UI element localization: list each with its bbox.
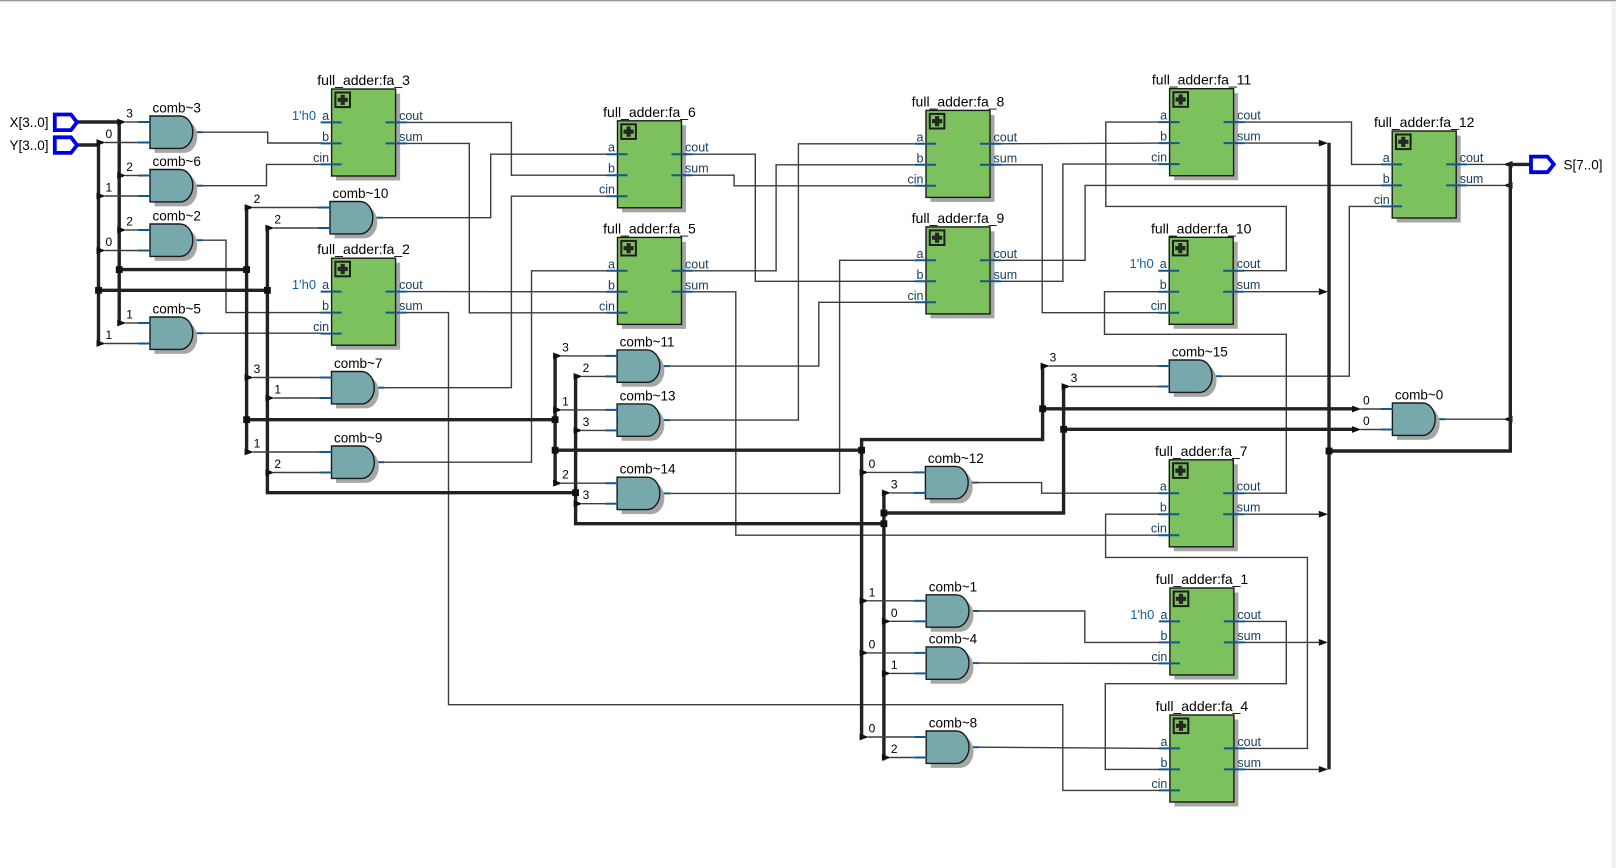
svg-text:cout: cout <box>399 109 423 123</box>
node X[2] branch to comb~14 <box>553 468 605 487</box>
svg-text:cout: cout <box>685 141 709 155</box>
svg-text:sum: sum <box>1237 501 1261 515</box>
svg-text:sum: sum <box>1237 130 1261 144</box>
AND gate comb~6 <box>138 154 201 206</box>
wire fa_1.cout to fa_4.b <box>1105 621 1286 769</box>
wire comb~4 output to fa_1.cin <box>968 662 1160 664</box>
wire fa_3.cout to fa_6.b <box>407 122 608 175</box>
svg-text:2: 2 <box>274 213 281 227</box>
node Y[2] branch to comb~10 <box>265 213 318 232</box>
node X[1] branch to comb~9 <box>245 437 320 456</box>
svg-text:2: 2 <box>274 457 281 471</box>
svg-text:1: 1 <box>869 585 876 599</box>
wire fa_12.sum to S trunk <box>1467 182 1512 189</box>
svg-text:comb~5: comb~5 <box>153 302 201 317</box>
node Y[0] branch to comb~2 <box>97 235 139 254</box>
svg-text:cin: cin <box>908 289 924 303</box>
wire fa_7.sum to S bus <box>1244 511 1328 518</box>
node X[0] branch to comb~4 <box>860 637 915 656</box>
wire fa_4.sum to S bus <box>1245 766 1328 773</box>
wire comb~9 output to fa_5.a <box>373 271 607 462</box>
wire fa_6.sum to fa_8.cin <box>693 175 917 186</box>
junction Y bus at (1064,429) <box>1060 426 1067 433</box>
wire fa_3.sum to fa_5.cin <box>407 143 608 312</box>
svg-text:sum: sum <box>994 268 1018 282</box>
AND gate comb~12 <box>913 451 983 503</box>
svg-text:sum: sum <box>399 299 423 313</box>
node X[3] branch to comb~11 <box>553 340 605 359</box>
AND gate comb~2 <box>138 209 201 261</box>
svg-text:comb~6: comb~6 <box>153 154 201 169</box>
node X[2] branch to comb~2 <box>117 215 138 234</box>
node Y[3] branch to comb~14 <box>574 488 606 507</box>
node X[3] branch to comb~15 <box>1041 351 1158 370</box>
junction X bus at (555,420) <box>552 416 559 423</box>
svg-text:b: b <box>1160 501 1167 515</box>
node X[2] branch to comb~10 <box>245 192 318 211</box>
svg-text:2: 2 <box>562 468 569 482</box>
svg-text:a: a <box>608 141 615 155</box>
wire comb~10 output to fa_6.a <box>372 154 608 218</box>
junction Y bus at (267,290) <box>264 287 271 294</box>
wire fa_9.sum to fa_11.cin <box>1001 164 1160 281</box>
svg-text:sum: sum <box>1237 756 1261 770</box>
svg-text:cin: cin <box>313 320 329 334</box>
svg-text:1: 1 <box>126 308 133 322</box>
node Y[1] branch to comb~7 <box>265 383 319 402</box>
full adder U fa_12 <box>1374 114 1484 223</box>
svg-text:b: b <box>608 278 615 292</box>
svg-text:a: a <box>1160 735 1167 749</box>
svg-text:full_adder:fa_7: full_adder:fa_7 <box>1155 443 1248 459</box>
svg-text:cin: cin <box>599 183 615 197</box>
svg-text:b: b <box>1160 756 1167 770</box>
svg-text:b: b <box>1160 629 1167 643</box>
wire fa_8.sum to fa_10.cin <box>1001 165 1159 313</box>
svg-text:sum: sum <box>399 130 423 144</box>
svg-text:full_adder:fa_10: full_adder:fa_10 <box>1151 220 1252 236</box>
AND gate comb~1 <box>914 579 977 631</box>
svg-text:cout: cout <box>685 257 709 271</box>
wire comb~14 output to fa_9.a <box>659 260 916 493</box>
wire fa_5.sum to fa_7.cin <box>693 292 1160 535</box>
wire X input bus trunk <box>76 122 1354 737</box>
wire comb~15 output to fa_12.cin <box>1211 206 1382 376</box>
svg-text:sum: sum <box>1237 629 1261 643</box>
svg-text:comb~10: comb~10 <box>333 186 389 201</box>
junction X bus at (247,420) <box>243 416 250 423</box>
node X[0] branch to comb~8 <box>860 722 915 741</box>
svg-text:0: 0 <box>869 457 876 471</box>
svg-text:comb~15: comb~15 <box>1172 345 1228 360</box>
wire comb~0 output to S trunk <box>1434 416 1512 423</box>
svg-text:cout: cout <box>1237 480 1261 494</box>
input pin Y[3..0] <box>10 137 78 153</box>
full adder U fa_5 <box>599 220 709 329</box>
svg-text:b: b <box>917 268 924 282</box>
AND gate comb~11 <box>605 334 674 386</box>
wire comb~11 output to fa_9.cin <box>659 302 916 366</box>
svg-text:comb~9: comb~9 <box>334 431 382 446</box>
svg-text:cout: cout <box>1237 735 1261 749</box>
svg-text:1'h0: 1'h0 <box>292 108 316 123</box>
svg-text:sum: sum <box>994 151 1018 165</box>
svg-text:full_adder:fa_4: full_adder:fa_4 <box>1156 698 1249 714</box>
svg-text:cout: cout <box>994 247 1018 261</box>
node X[0] branch to comb~12 <box>860 457 914 476</box>
svg-text:0: 0 <box>106 235 113 249</box>
junction Y bus at (576,493) <box>572 489 579 496</box>
svg-text:cin: cin <box>1151 777 1167 791</box>
svg-text:cin: cin <box>1151 650 1167 664</box>
svg-text:3: 3 <box>562 340 569 354</box>
svg-text:cout: cout <box>1460 151 1484 165</box>
wire fa_11.cout to fa_12.a <box>1245 122 1383 164</box>
svg-text:2: 2 <box>126 215 133 229</box>
wire fa_10.sum to S bus <box>1244 288 1328 295</box>
node Y[1] branch to comb~5 <box>97 328 139 347</box>
full adder U fa_6 <box>599 104 709 213</box>
svg-text:b: b <box>1160 130 1167 144</box>
svg-text:cout: cout <box>1237 257 1261 271</box>
AND gate comb~7 <box>320 356 383 408</box>
full adder U fa_9 <box>908 210 1018 319</box>
svg-text:comb~4: comb~4 <box>929 631 978 646</box>
svg-text:comb~1: comb~1 <box>929 579 977 594</box>
AND gate comb~15 <box>1157 345 1227 397</box>
svg-text:2: 2 <box>126 160 133 174</box>
svg-text:1'h0: 1'h0 <box>1130 256 1154 271</box>
svg-text:cin: cin <box>1151 522 1167 536</box>
node Y[0] branch to comb~1 <box>882 606 914 625</box>
node Y[1] branch to comb~4 <box>882 658 914 677</box>
svg-text:comb~11: comb~11 <box>620 334 675 349</box>
svg-text:cout: cout <box>1237 608 1261 622</box>
full adder U fa_7 <box>1151 443 1261 552</box>
svg-text:sum: sum <box>1460 172 1484 186</box>
AND gate comb~10 <box>318 186 388 238</box>
node X[3] branch to comb~3 <box>117 107 138 126</box>
wire fa_5.cout to fa_8.b <box>693 165 917 271</box>
wire fa_9.cout to fa_12.b <box>1001 185 1382 260</box>
svg-text:comb~8: comb~8 <box>929 716 977 731</box>
svg-text:b: b <box>1383 172 1390 186</box>
junction S bus at (1329,451) <box>1326 448 1333 455</box>
svg-text:0: 0 <box>1363 394 1370 408</box>
svg-text:a: a <box>1383 151 1390 165</box>
full adder U fa_2 <box>292 241 423 350</box>
node Y[0] branch to comb~0 <box>1352 414 1380 433</box>
node X[1] branch to comb~13 <box>553 394 605 413</box>
svg-text:comb~12: comb~12 <box>928 451 984 466</box>
AND gate comb~13 <box>605 388 675 440</box>
svg-text:a: a <box>917 130 924 144</box>
svg-text:0: 0 <box>891 606 898 620</box>
svg-text:0: 0 <box>1363 414 1370 428</box>
svg-text:comb~13: comb~13 <box>620 388 676 403</box>
svg-text:full_adder:fa_12: full_adder:fa_12 <box>1374 114 1475 130</box>
wire comb~2 output to fa_2.b <box>192 240 322 312</box>
svg-text:sum: sum <box>685 278 709 292</box>
svg-text:comb~14: comb~14 <box>620 462 676 477</box>
full adder U fa_1 <box>1130 571 1261 680</box>
wire comb~1 output to fa_1.b <box>968 611 1160 642</box>
wire S output bus trunk <box>1329 143 1532 770</box>
svg-text:3: 3 <box>1071 371 1078 385</box>
node X[1] branch to comb~1 <box>860 585 915 604</box>
svg-text:full_adder:fa_3: full_adder:fa_3 <box>317 72 410 88</box>
wire Y input bus trunk <box>76 145 1354 760</box>
svg-text:3: 3 <box>254 362 261 376</box>
svg-text:a: a <box>322 109 329 123</box>
svg-text:cout: cout <box>994 130 1018 144</box>
wire fa_4.cout to fa_7.b <box>1106 514 1308 748</box>
wire comb~5 output to fa_2.cin <box>192 332 322 334</box>
full adder U fa_10 <box>1130 220 1261 328</box>
wire fa_11.sum to S bus <box>1245 140 1328 147</box>
svg-text:full_adder:fa_5: full_adder:fa_5 <box>603 220 696 236</box>
junction X bus at (555,450) <box>552 447 559 454</box>
node Y[0] branch to comb~3 <box>97 127 139 146</box>
AND gate comb~5 <box>138 302 201 354</box>
AND gate comb~4 <box>914 631 977 683</box>
svg-text:comb~0: comb~0 <box>1395 388 1443 403</box>
svg-text:a: a <box>1160 480 1167 494</box>
AND gate comb~3 <box>138 101 201 153</box>
AND gate comb~14 <box>605 462 676 514</box>
svg-text:full_adder:fa_11: full_adder:fa_11 <box>1152 72 1252 88</box>
AND gate comb~8 <box>914 716 977 768</box>
node X[0] branch to comb~0 <box>1352 394 1380 413</box>
output pin S[7..0] <box>1531 157 1603 173</box>
junction Y bus at (884,524) <box>881 520 888 527</box>
full adder U fa_3 <box>292 72 423 181</box>
svg-text:1: 1 <box>274 383 281 397</box>
svg-text:3: 3 <box>583 488 590 502</box>
svg-text:comb~3: comb~3 <box>153 101 201 116</box>
wire fa_1.sum to S bus <box>1245 639 1328 646</box>
svg-text:cin: cin <box>313 151 329 165</box>
svg-text:1: 1 <box>562 394 569 408</box>
junction X bus at (247,270) <box>243 266 250 273</box>
svg-text:b: b <box>322 130 329 144</box>
svg-text:b: b <box>917 151 924 165</box>
wire comb~8 output to fa_4.a <box>968 747 1160 748</box>
wire fa_10.cout to fa_11.a <box>1106 122 1287 271</box>
svg-text:1: 1 <box>891 658 898 672</box>
node Y[2] branch to comb~11 <box>574 361 606 380</box>
junction X bus at (119,270) <box>116 266 123 273</box>
svg-text:cin: cin <box>1151 151 1167 165</box>
wire comb~6 output to fa_3.cin <box>192 164 322 185</box>
svg-text:comb~7: comb~7 <box>334 356 382 371</box>
node Y[3] branch to comb~13 <box>574 415 606 434</box>
wire fa_7.cout to fa_10.b <box>1105 292 1287 494</box>
node X[3] branch to comb~7 <box>245 362 320 381</box>
full adder U fa_11 <box>1151 72 1261 181</box>
wire comb~12 output to fa_7.a <box>967 483 1159 494</box>
input pin X[3..0] <box>10 115 78 131</box>
svg-text:a: a <box>1160 109 1167 123</box>
svg-text:sum: sum <box>685 162 709 176</box>
svg-text:full_adder:fa_8: full_adder:fa_8 <box>912 93 1005 109</box>
wire fa_2.cout to fa_5.b <box>407 291 608 293</box>
node Y[2] branch to comb~8 <box>882 742 914 761</box>
svg-text:X[3..0]: X[3..0] <box>10 115 49 130</box>
svg-text:0: 0 <box>106 127 113 141</box>
svg-text:1'h0: 1'h0 <box>292 277 316 292</box>
svg-text:b: b <box>322 299 329 313</box>
junction X bus at (862,450) <box>858 447 865 454</box>
svg-text:cout: cout <box>1237 109 1261 123</box>
node Y[3] branch to comb~15 <box>1062 371 1158 390</box>
svg-text:2: 2 <box>891 742 898 756</box>
AND gate comb~9 <box>320 431 383 483</box>
svg-text:a: a <box>917 247 924 261</box>
svg-text:Y[3..0]: Y[3..0] <box>10 138 49 153</box>
svg-text:3: 3 <box>583 415 590 429</box>
node X[2] branch to comb~6 <box>117 160 138 179</box>
svg-text:full_adder:fa_1: full_adder:fa_1 <box>1156 571 1249 587</box>
AND gate comb~0 <box>1380 388 1443 440</box>
node Y[2] branch to comb~9 <box>265 457 319 476</box>
svg-text:a: a <box>1160 608 1167 622</box>
svg-text:3: 3 <box>1050 351 1057 365</box>
svg-text:1: 1 <box>254 437 261 451</box>
svg-text:S[7..0]: S[7..0] <box>1564 157 1603 172</box>
node Y[1] branch to comb~6 <box>97 181 139 200</box>
svg-text:3: 3 <box>126 107 133 121</box>
svg-text:full_adder:fa_6: full_adder:fa_6 <box>603 104 696 120</box>
svg-text:b: b <box>1160 278 1167 292</box>
junction Y bus at (99,290) <box>95 287 102 294</box>
svg-text:1: 1 <box>106 328 113 342</box>
full adder U fa_4 <box>1151 698 1261 807</box>
node X[1] branch to comb~5 <box>117 308 138 327</box>
svg-text:sum: sum <box>1237 278 1261 292</box>
svg-text:cin: cin <box>908 172 924 186</box>
wire fa_2.sum to fa_4.cin <box>407 313 1160 791</box>
svg-text:b: b <box>608 162 615 176</box>
wire comb~13 output to fa_8.a <box>659 144 916 420</box>
wire comb~7 output to fa_6.cin <box>373 196 607 388</box>
wire fa_6.cout to fa_9.b <box>693 154 917 281</box>
junction X bus at (1043,409) <box>1039 405 1046 412</box>
svg-text:cout: cout <box>399 278 423 292</box>
svg-text:1'h0: 1'h0 <box>1130 607 1154 622</box>
svg-text:a: a <box>608 257 615 271</box>
node Y[3] branch to comb~12 <box>882 477 914 496</box>
svg-text:a: a <box>322 278 329 292</box>
svg-text:full_adder:fa_9: full_adder:fa_9 <box>912 210 1005 226</box>
wire fa_12.cout to S trunk <box>1467 161 1512 168</box>
junction Y bus at (884,513) <box>881 510 888 517</box>
svg-text:full_adder:fa_2: full_adder:fa_2 <box>317 241 410 257</box>
wire fa_8.cout to fa_11.b <box>1001 142 1160 145</box>
wire comb~3 output to fa_3.b <box>192 132 322 143</box>
svg-text:2: 2 <box>583 361 590 375</box>
svg-text:cin: cin <box>1374 193 1390 207</box>
svg-text:cin: cin <box>1151 299 1167 313</box>
svg-text:3: 3 <box>891 477 898 491</box>
svg-text:comb~2: comb~2 <box>153 209 201 224</box>
svg-text:0: 0 <box>869 637 876 651</box>
svg-text:1: 1 <box>106 181 113 195</box>
full adder U fa_8 <box>908 93 1018 201</box>
svg-text:2: 2 <box>254 192 261 206</box>
svg-text:a: a <box>1160 257 1167 271</box>
svg-text:cin: cin <box>599 299 615 313</box>
svg-text:0: 0 <box>869 722 876 736</box>
